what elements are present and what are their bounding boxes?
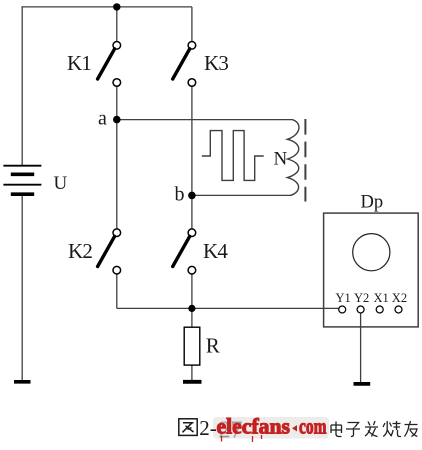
烧 bbox=[383, 421, 401, 437]
svg-text:com: com bbox=[299, 414, 327, 439]
wire junction to resistor bbox=[191, 308, 193, 327]
svg-text:K3: K3 bbox=[204, 51, 228, 75]
ground below battery bbox=[14, 380, 31, 384]
wire top rail bbox=[22, 6, 192, 8]
svg-text:K4: K4 bbox=[203, 239, 228, 263]
svg-text:X2: X2 bbox=[392, 291, 407, 305]
node b bbox=[188, 192, 196, 200]
wire K4 to bottom junction bbox=[191, 274, 193, 308]
友 bbox=[405, 421, 418, 437]
wire left rail upper bbox=[21, 6, 23, 165]
watermark elecfans.com red bbox=[217, 414, 327, 439]
wire left branch to K1 bbox=[116, 7, 118, 42]
oscilloscope Dp box bbox=[324, 213, 419, 327]
inductor core dashed line bbox=[304, 119, 306, 202]
oscilloscope screen circle bbox=[353, 234, 390, 271]
switch K4 bbox=[173, 229, 196, 274]
子 bbox=[346, 423, 360, 437]
ground below Y2 bbox=[354, 382, 371, 386]
watermark halo wash bbox=[213, 417, 329, 439]
svg-text:X1: X1 bbox=[374, 291, 389, 305]
svg-text:K2: K2 bbox=[68, 239, 92, 263]
wire K3 to node b bbox=[191, 86, 193, 195]
terminal Y2 bbox=[357, 306, 364, 313]
svg-text:R: R bbox=[206, 333, 220, 357]
switch K3 bbox=[173, 42, 196, 87]
battery U bbox=[3, 166, 41, 195]
wire K2 to bottom rail bbox=[116, 274, 118, 308]
watermark diamond separator bbox=[292, 425, 297, 431]
wire resistor to ground bbox=[191, 365, 193, 381]
wire node a horizontal to load bbox=[117, 119, 293, 121]
wire node b to K4 bbox=[191, 195, 193, 229]
svg-text:N: N bbox=[274, 149, 288, 170]
wire battery to ground bbox=[21, 194, 23, 380]
terminal X2 bbox=[395, 306, 402, 313]
switch K2 bbox=[98, 229, 121, 274]
caption hanzi dian-zi-fa-shao-you (电子发烧友) hand drawn bbox=[331, 421, 418, 437]
svg-text:U: U bbox=[54, 173, 68, 194]
watermark drip marks bbox=[222, 435, 262, 442]
wire Y2 to ground bbox=[360, 313, 362, 383]
wire node b horizontal to load bbox=[192, 194, 292, 196]
switch K1 bbox=[98, 42, 121, 87]
resistor R bbox=[184, 327, 200, 365]
svg-text:Y2: Y2 bbox=[354, 291, 369, 305]
wire bottom rail to Y1 bbox=[117, 307, 339, 309]
svg-text:Dp: Dp bbox=[361, 192, 384, 212]
svg-text:K1: K1 bbox=[67, 51, 91, 75]
svg-text:Y1: Y1 bbox=[336, 291, 351, 305]
wire K1 to node a bbox=[116, 86, 118, 120]
wire node a to K2 bbox=[116, 120, 118, 229]
caption hanzi tu (图) hand drawn bbox=[179, 419, 197, 436]
ground below resistor bbox=[183, 380, 202, 384]
inductor N coil bbox=[287, 120, 299, 196]
svg-text:elecfans: elecfans bbox=[217, 414, 291, 439]
waveform symbol inside load loop bbox=[202, 131, 264, 181]
node a bbox=[113, 116, 121, 124]
terminal X1 bbox=[376, 306, 383, 313]
svg-text:a: a bbox=[98, 107, 107, 129]
svg-text:b: b bbox=[175, 183, 185, 205]
node bottom junction bbox=[188, 305, 195, 312]
电 bbox=[331, 422, 342, 437]
发 bbox=[365, 421, 378, 437]
node top junction bbox=[113, 3, 120, 10]
wire right branch to K3 bbox=[191, 7, 193, 42]
svg-text:2-: 2- bbox=[199, 416, 217, 440]
terminal Y1 bbox=[339, 306, 346, 313]
